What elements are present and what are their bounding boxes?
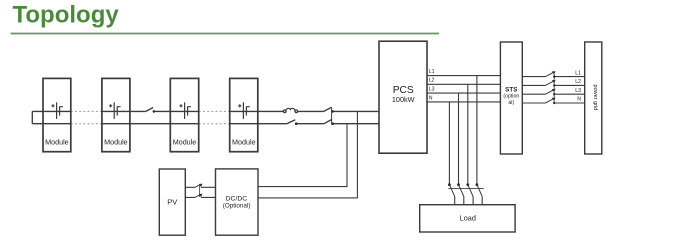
svg-text:STS: STS <box>505 86 517 93</box>
svg-text:PV: PV <box>167 197 177 206</box>
svg-text:L2: L2 <box>429 78 435 84</box>
svg-text:L3: L3 <box>575 88 581 94</box>
svg-text:power grid: power grid <box>592 85 598 111</box>
svg-text:(option: (option <box>503 94 519 100</box>
svg-text:L1: L1 <box>429 69 435 75</box>
svg-text:N: N <box>577 97 581 103</box>
svg-text:Module: Module <box>232 137 256 146</box>
svg-text:(Optional): (Optional) <box>223 203 251 210</box>
svg-text:al): al) <box>508 100 514 106</box>
svg-text:Topology: Topology <box>13 2 120 29</box>
svg-text:100kW: 100kW <box>392 95 415 104</box>
svg-text:L3: L3 <box>429 86 435 92</box>
svg-text:Module: Module <box>45 137 69 146</box>
svg-text:Load: Load <box>460 214 476 223</box>
svg-text:Module: Module <box>173 137 197 146</box>
svg-text:Module: Module <box>104 137 128 146</box>
svg-text:L2: L2 <box>575 79 581 85</box>
svg-text:N: N <box>429 96 433 102</box>
svg-text:DC/DC: DC/DC <box>226 196 248 203</box>
svg-text:L1: L1 <box>575 70 581 76</box>
